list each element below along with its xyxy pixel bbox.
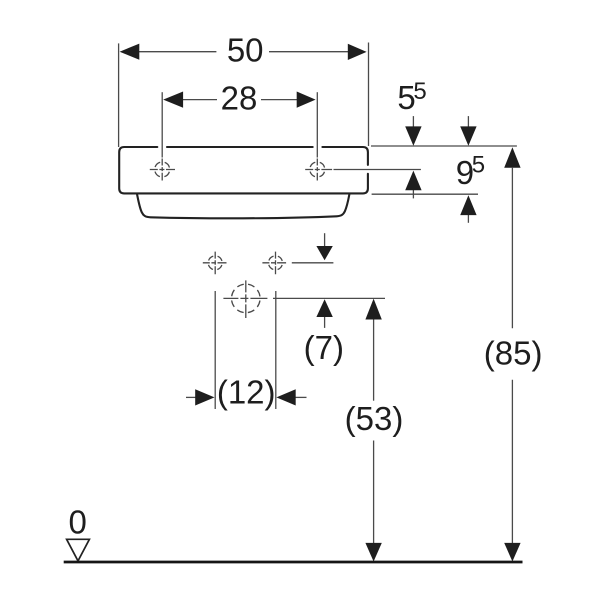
dimension 53: lower line and arrow pointing down to floor <box>365 441 381 562</box>
svg-text:(7): (7) <box>304 329 344 366</box>
svg-text:28: 28 <box>221 80 258 117</box>
dimension 9.5: value label with superscript <box>456 151 485 191</box>
level line at rim bottom <box>372 193 478 195</box>
dimension 5.5: value label with superscript <box>397 78 426 116</box>
dimension 9.5: lower arrow pointing up <box>460 195 476 223</box>
left tap hole cross (dashed circle with centerlines) <box>150 159 175 181</box>
dimension 85: upper arrow pointing up to basin top level <box>504 147 520 328</box>
dimension 12: left extension line <box>214 291 216 409</box>
right water supply cross (dashed circle with centerlines) <box>262 252 288 275</box>
dimension 12: right extension line <box>275 291 277 409</box>
dimension 9.5: upper arrow pointing down <box>460 116 476 146</box>
svg-text:(12): (12) <box>217 374 276 411</box>
floor line <box>64 561 523 564</box>
dimension 7: upper arrow pointing down <box>316 233 332 260</box>
level line at drain <box>273 297 385 299</box>
dimension 85: value label <box>484 335 543 372</box>
washbasin apron outline <box>137 195 349 219</box>
dimension 50: left arrowhead <box>120 44 140 60</box>
left water supply cross (dashed circle with centerlines) <box>203 252 227 275</box>
svg-text:50: 50 <box>227 31 264 68</box>
dimension 28: right arrowhead <box>297 92 316 108</box>
svg-text:5: 5 <box>413 78 426 105</box>
dimension 12: value label <box>217 374 276 411</box>
datum level triangle symbol <box>67 539 90 561</box>
svg-text:(53): (53) <box>345 400 404 437</box>
dimension 28: left extension line <box>161 92 163 157</box>
datum level label 0 <box>69 504 87 541</box>
dimension 50: left extension line <box>118 43 120 147</box>
level line at water supply connections <box>292 262 334 264</box>
dimension 12: left arrow pointing right <box>186 389 215 405</box>
dimension 50: right extension line <box>368 43 370 147</box>
svg-text:5: 5 <box>472 151 485 178</box>
dimension 50: dimension line with gap for text <box>138 51 349 53</box>
dimension 28: right extension line <box>316 92 318 157</box>
dimension 28: dimension line with gap for text <box>182 99 298 101</box>
dimension 5.5: lower arrow pointing up <box>405 171 421 199</box>
dimension 28: value label <box>221 80 258 117</box>
level line at basin top (reference for 5.5 / 9.5 / 85) <box>371 145 517 147</box>
svg-text:0: 0 <box>69 504 87 541</box>
level line at tap hole centre <box>334 169 421 171</box>
dimension 53: value label <box>345 400 404 437</box>
dimension 5.5: upper arrow pointing down <box>405 116 421 146</box>
dimension 50: value label <box>227 31 264 68</box>
dimension 7: value label <box>304 329 344 366</box>
dimension 7: lower arrow pointing up <box>316 299 332 328</box>
svg-text:(85): (85) <box>484 335 543 372</box>
right tap hole cross (dashed circle with centerlines) <box>305 159 332 181</box>
dimension 50: right arrowhead <box>348 44 367 60</box>
dimension 53: upper arrow pointing up to drain level <box>365 299 381 401</box>
dimension 28: left arrowhead <box>163 92 183 108</box>
dimension 85: lower line and arrow pointing down to floor <box>504 380 520 562</box>
drain cross (large dashed circle with centerlines) <box>223 280 267 318</box>
dimension 12: right arrow pointing left <box>276 389 306 405</box>
washbasin rim outline (front view, with gaps where lines cross) <box>119 147 368 193</box>
